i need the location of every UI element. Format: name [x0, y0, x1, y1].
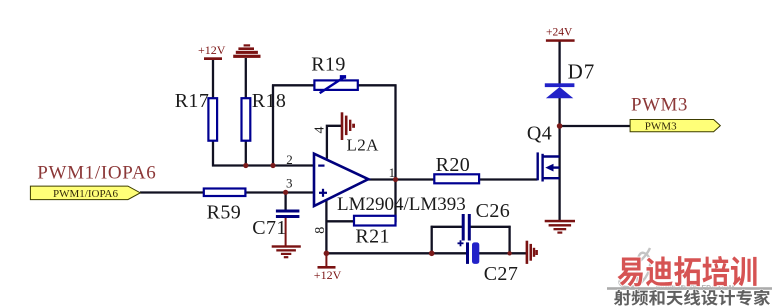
- svg-text:PWM1/IOPA6: PWM1/IOPA6: [37, 163, 156, 184]
- svg-text:C27: C27: [484, 263, 519, 285]
- svg-text:D7: D7: [568, 60, 596, 84]
- svg-text:PWM1/IOPA6: PWM1/IOPA6: [53, 188, 118, 200]
- svg-text:PWM3: PWM3: [645, 121, 677, 133]
- svg-text:4: 4: [313, 127, 328, 134]
- svg-text:+12V: +12V: [314, 268, 342, 282]
- svg-text:C71: C71: [252, 217, 287, 239]
- svg-text:R59: R59: [207, 202, 242, 224]
- svg-text:L2A: L2A: [347, 136, 380, 155]
- svg-text:R20: R20: [436, 154, 471, 176]
- svg-text:R19: R19: [311, 54, 346, 76]
- svg-text:3: 3: [286, 175, 293, 190]
- svg-text:1: 1: [389, 165, 396, 180]
- svg-text:2: 2: [286, 152, 293, 167]
- svg-text:C26: C26: [476, 200, 511, 222]
- svg-text:+12V: +12V: [198, 43, 226, 57]
- svg-text:Q4: Q4: [527, 123, 552, 145]
- svg-text:8: 8: [313, 227, 328, 234]
- svg-text:LM2904/LM393: LM2904/LM393: [337, 194, 466, 215]
- svg-text:PWM3: PWM3: [631, 95, 688, 116]
- svg-text:R18: R18: [252, 90, 287, 112]
- svg-text:+24V: +24V: [546, 26, 573, 38]
- svg-text:R17: R17: [175, 90, 210, 112]
- svg-text:R21: R21: [355, 226, 390, 248]
